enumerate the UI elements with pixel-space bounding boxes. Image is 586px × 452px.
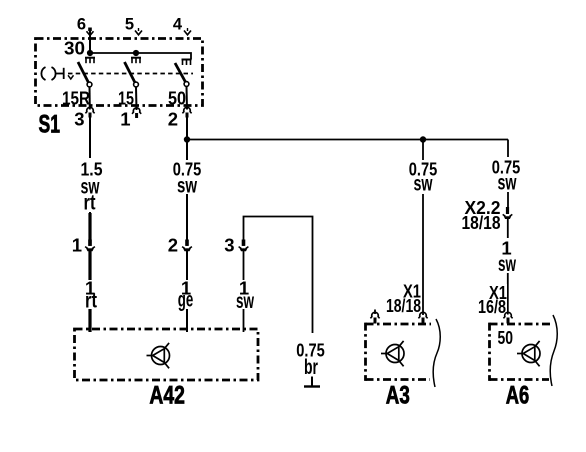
fixed contact sw1 bbox=[85, 58, 95, 64]
horn symbol A3 bbox=[381, 341, 404, 366]
svg-text:4: 4 bbox=[173, 15, 183, 33]
pin 6 socket bbox=[87, 28, 94, 36]
connector X2.2 labels bbox=[462, 197, 501, 233]
label 0.75 sw A3 wire bbox=[406, 159, 440, 196]
junction dot bus sw1 bbox=[87, 50, 93, 56]
wire col3 link horn bbox=[244, 217, 313, 334]
blade contact circle sw3 bbox=[184, 82, 189, 87]
wire to A6 lower bbox=[507, 217, 509, 315]
junction dot col2 bbox=[184, 136, 190, 142]
svg-text:S1: S1 bbox=[39, 111, 61, 139]
svg-text:2: 2 bbox=[168, 109, 178, 130]
wire col1 thick 1.5mm bbox=[88, 213, 91, 332]
junction dot bus sw2 bbox=[133, 50, 139, 56]
wire sw2 to pin 1 bbox=[135, 87, 138, 110]
torn edge A3 bbox=[433, 319, 440, 387]
svg-text:6: 6 bbox=[77, 15, 86, 33]
pin 3 socket bbox=[85, 107, 94, 117]
socket A3 left bbox=[370, 310, 379, 324]
socket A3 right bbox=[418, 312, 427, 323]
svg-text:A3: A3 bbox=[386, 382, 410, 410]
svg-text:5: 5 bbox=[125, 15, 134, 33]
pin 4 socket bbox=[184, 28, 191, 35]
ground symbol W bbox=[304, 377, 320, 387]
connector label X1 18/18 A3 bbox=[386, 281, 421, 317]
switch blade sw1 bbox=[78, 62, 88, 82]
wire pin6 into box bbox=[89, 29, 91, 56]
wire col2 pin2 down bbox=[186, 116, 188, 332]
svg-text:18/18: 18/18 bbox=[386, 295, 421, 316]
svg-text:A6: A6 bbox=[506, 382, 530, 410]
switch blade sw3 bbox=[175, 63, 185, 82]
svg-text:50: 50 bbox=[498, 327, 514, 348]
svg-text:30: 30 bbox=[64, 37, 85, 58]
ignition key symbol bbox=[41, 67, 73, 80]
label 0.75 br ground wire bbox=[295, 338, 328, 379]
switch box S1 border bbox=[36, 39, 203, 106]
label 0.75 sw A6 wire bbox=[489, 157, 523, 195]
label 1 rt col1 bbox=[80, 278, 100, 313]
socket A6 entry bbox=[503, 312, 512, 323]
svg-text:50: 50 bbox=[168, 87, 186, 108]
connector label X1 16/8 A6 bbox=[477, 282, 507, 317]
svg-text:sw: sw bbox=[177, 174, 197, 197]
svg-text:1: 1 bbox=[120, 109, 130, 130]
wire sw3 to pin 2 bbox=[186, 86, 189, 109]
svg-text:3: 3 bbox=[74, 109, 84, 130]
mechanical link dashed line bbox=[68, 73, 193, 75]
pin 2 socket bbox=[182, 107, 191, 117]
blade contact circle sw2 bbox=[134, 82, 139, 87]
svg-text:18/18: 18/18 bbox=[462, 212, 501, 233]
wire sw1 to pin 3 bbox=[89, 87, 91, 110]
blade contact circle sw1 bbox=[87, 82, 92, 87]
svg-text:rt: rt bbox=[84, 191, 96, 214]
svg-text:br: br bbox=[304, 356, 318, 379]
junction dot A3 bbox=[420, 136, 426, 142]
connector X2.2 symbol bbox=[503, 207, 513, 219]
wire to A3 bbox=[422, 140, 424, 316]
svg-text:15: 15 bbox=[118, 87, 134, 108]
label 1 sw col3 bbox=[234, 278, 254, 313]
svg-text:A42: A42 bbox=[149, 382, 185, 410]
svg-text:ge: ge bbox=[178, 289, 194, 312]
inline connector col2 bbox=[182, 240, 192, 252]
wire to A6 upper bbox=[507, 140, 509, 208]
svg-text:1: 1 bbox=[72, 235, 82, 256]
svg-text:2: 2 bbox=[168, 235, 178, 256]
torn edge A6 bbox=[550, 315, 557, 386]
label 1 ge col2 bbox=[176, 278, 196, 312]
fixed contact sw2 bbox=[131, 58, 141, 64]
component box A3 bbox=[366, 323, 432, 381]
fixed contact sw3 bbox=[182, 60, 192, 66]
component box A6 bbox=[490, 323, 552, 381]
bus wire 30 bbox=[90, 53, 191, 60]
svg-text:sw: sw bbox=[236, 290, 254, 313]
component box A42 bbox=[75, 329, 259, 380]
pin 1 socket bbox=[132, 108, 141, 118]
svg-text:sw: sw bbox=[414, 172, 433, 195]
horn symbol A6 bbox=[517, 341, 540, 366]
label 1.5 sw rt col1 bbox=[78, 158, 105, 214]
main horizontal wire t30 bbox=[187, 139, 508, 141]
label 1 sw A6 wire bbox=[497, 238, 519, 277]
switch blade sw2 bbox=[125, 62, 135, 82]
inline connector col1 bbox=[85, 240, 95, 252]
svg-text:sw: sw bbox=[498, 253, 516, 276]
pin 5 socket bbox=[135, 28, 142, 35]
wire col1 upper bbox=[89, 116, 91, 213]
svg-text:sw: sw bbox=[498, 171, 517, 194]
horn symbol A42 bbox=[147, 343, 170, 368]
inline connector col3 bbox=[239, 240, 249, 252]
svg-text:15R: 15R bbox=[62, 87, 90, 108]
svg-text:3: 3 bbox=[224, 235, 234, 256]
svg-text:rt: rt bbox=[85, 290, 97, 313]
label 0.75 sw col2 bbox=[170, 159, 204, 198]
svg-text:16/8: 16/8 bbox=[478, 296, 506, 317]
